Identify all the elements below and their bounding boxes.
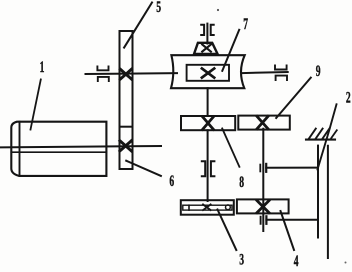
leader line to label 2 — [318, 104, 337, 169]
gear G8 cross X — [203, 117, 214, 130]
coupling half-bracket lower, right of gearbox — [276, 76, 287, 80]
scan speck bottom right — [345, 262, 347, 264]
leader line to label 1 — [31, 80, 41, 130]
gear G9 cross X — [257, 116, 268, 128]
safety clutch small cross X — [203, 204, 211, 210]
coupling half-bracket upper, right of gearbox — [275, 65, 287, 69]
svg-text:9: 9 — [316, 61, 321, 79]
safety clutch pin circle — [226, 205, 231, 210]
coupling half-bracket lower, left of pulley shaft — [98, 77, 109, 81]
leader line to label 4 — [281, 211, 295, 250]
worm cross X — [202, 69, 214, 78]
screw column right line — [327, 146, 329, 258]
journal tick right below gear G4 — [265, 216, 267, 224]
hatch stroke 1 — [309, 129, 316, 140]
trapezoid cross X — [202, 45, 211, 52]
hatch stroke 2 — [315, 129, 322, 140]
motor M1 axis shaft — [1, 146, 162, 147]
coupling bracket left of vertical shaft — [201, 25, 204, 35]
svg-text:6: 6 — [169, 171, 174, 189]
pulley P1 cross upper — [120, 69, 131, 79]
vertical shaft I lower segment — [207, 130, 209, 201]
leader line to label 9 — [276, 78, 311, 118]
coupling bracket right on shaft I — [211, 161, 215, 176]
svg-text:7: 7 — [243, 15, 248, 33]
belt B (item 5) rectangle — [120, 31, 133, 169]
fixed support hatched line (item 2 frame) — [306, 139, 335, 141]
gear G8 rectangle (left, item 8 row) — [181, 116, 235, 130]
hatch stroke 3 — [322, 129, 329, 140]
vertical shaft I, gearbox to gear row — [207, 88, 209, 116]
svg-text:8: 8 — [239, 172, 244, 190]
worm gearbox housing (item 7) spool-shaped box — [171, 55, 245, 88]
bevel wheel trapezoid on vertical shaft — [194, 43, 218, 54]
horizontal link lower to screw column — [266, 219, 318, 221]
safety clutch inner divider — [188, 205, 190, 210]
journal tick left on shaft II — [259, 165, 261, 172]
journal tick right on shaft II — [265, 164, 267, 172]
coupling half-bracket upper, left of pulley shaft — [97, 66, 108, 70]
svg-text:1: 1 — [40, 57, 45, 75]
pulley P2 cross lower — [120, 141, 131, 151]
leader line to label 6 — [126, 161, 161, 176]
svg-text:4: 4 — [294, 251, 299, 269]
horizontal link upper to screw column — [266, 167, 318, 169]
motor M1 body — [11, 122, 106, 176]
coupling bracket right of vertical shaft — [211, 25, 214, 35]
coupling bracket left on shaft I — [202, 161, 205, 176]
safety clutch unit (item 3) outer rectangle — [181, 200, 234, 215]
pulley shaft upper, horizontal — [86, 72, 178, 75]
scan speck top — [217, 9, 219, 11]
leader line to label 7 — [222, 30, 239, 71]
leader line to label 5 — [124, 3, 152, 48]
leader line to label 3 — [218, 210, 237, 251]
svg-text:3: 3 — [239, 250, 244, 268]
gear G9 rectangle (right, item 9) — [238, 116, 289, 130]
bottom gear G4 rectangle (item 4) — [237, 199, 289, 213]
screw column left line — [317, 146, 319, 238]
belt divider line — [120, 126, 133, 128]
motor M1 end-cap ring line — [19, 122, 21, 176]
safety clutch inner sleeve — [183, 205, 232, 210]
worm shaft right segment — [242, 72, 288, 73]
journal tick left below gear G4 — [260, 217, 262, 224]
worm inner rectangle — [187, 65, 229, 81]
motor M1 inner line — [11, 151, 106, 153]
svg-text:2: 2 — [346, 88, 351, 106]
vertical shaft II, gear G9 down to bottom gear — [262, 129, 264, 231]
hatch stroke 4 short — [331, 130, 337, 138]
leader line to label 8 — [222, 128, 239, 166]
bottom gear G4 cross X — [257, 201, 269, 213]
svg-text:5: 5 — [156, 0, 161, 15]
vertical input shaft above gearbox — [206, 24, 208, 44]
